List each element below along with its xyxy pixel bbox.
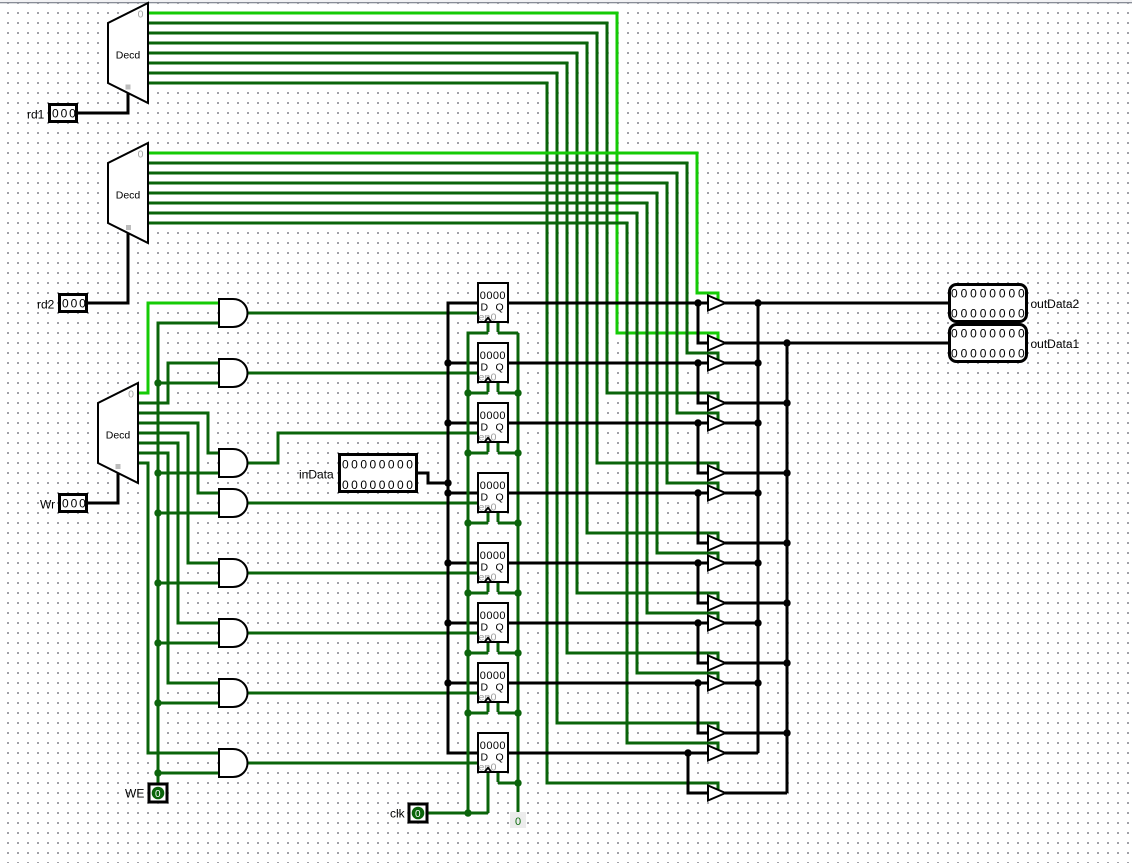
wire: register2 clock pin stub (487, 383, 490, 393)
tri-state buffer B3b (outData1 port) (708, 466, 726, 481)
wire: decoder2 out2 to buffer enable (148, 173, 718, 421)
wire: Q2 drop to second buffer (698, 363, 708, 403)
svg-text:inData: inData (299, 468, 334, 482)
tri-state buffer B4a (outData2 port) (708, 486, 726, 501)
AND gate G3 (219, 449, 248, 477)
svg-text:000: 000 (62, 497, 88, 511)
svg-text:0: 0 (128, 389, 134, 401)
wire: clk pin horizontal (428, 812, 488, 815)
junction data bus (448,623) (444, 619, 451, 626)
wire: buffer output to bus A y=753 (725, 752, 758, 755)
junction bus A (758,563) (754, 559, 761, 566)
wire: decoder2 out4 to buffer enable (148, 193, 718, 561)
wire: decoder1 out7 to buffer enable (148, 83, 718, 791)
junction bus B (787,343) (783, 339, 790, 346)
decoder U3 select pin (116, 464, 121, 469)
wire: register2 reset pin stub (497, 383, 500, 393)
wire: decoder2 out5 to buffer enable (148, 203, 718, 621)
svg-text:Q: Q (496, 752, 504, 764)
svg-text:0000: 0000 (480, 350, 506, 362)
tri-state buffer B1a (outData2 port) (708, 296, 726, 311)
wire: data bus tap to register D y=493 (448, 492, 477, 495)
junction reset riser (518,653) (514, 649, 521, 656)
svg-text:outData1: outData1 (1031, 337, 1080, 351)
wire: clock rail y=453 (468, 452, 488, 455)
wire: buffer output to bus B y=473 (725, 472, 787, 475)
wire: register6 reset pin stub (497, 643, 500, 653)
svg-text:Decd: Decd (106, 430, 131, 442)
svg-text:Decd: Decd (116, 50, 141, 62)
output pin outData2 (16-bit) (950, 285, 1028, 322)
junction bus A (758,303) (754, 299, 761, 306)
wire: buffer output to bus B y=543 (725, 542, 787, 545)
junction data bus (448,363) (444, 359, 451, 366)
wire: Q8 drop to second buffer (688, 753, 708, 793)
wire: register7 Q output to buffer (509, 682, 708, 685)
junction bus B (787,733) (783, 729, 790, 736)
input pin clk (value 0) (390, 804, 427, 822)
svg-text:0000: 0000 (480, 410, 506, 422)
wire: buffer output to bus B y=733 (725, 732, 787, 735)
svg-text:00000000: 00000000 (951, 307, 1028, 321)
wire: decoder3 out4 to AND gate 5 input (138, 433, 218, 563)
tri-state buffer B2a (outData2 port) (708, 356, 726, 371)
wire: clock riser x=468 (468, 333, 488, 813)
tri-state buffer B7a (outData2 port) (708, 676, 726, 691)
wire: decoder1 out0 to buffer enable (148, 13, 718, 341)
junction Q drop (698,423) (694, 419, 701, 426)
wire: register5 clock pin stub (487, 583, 490, 593)
wire: gate6 output to register 6 enable (248, 632, 477, 635)
wire: register3 Q output to buffer (509, 422, 708, 425)
junction data bus (448,563) (444, 559, 451, 566)
svg-text:00000000: 00000000 (342, 458, 415, 472)
wire: outData2 bus vertical x=758 (757, 303, 760, 753)
wire: rd2 pin to decoder2 select (88, 233, 128, 303)
junction clock riser (468,393) (464, 389, 471, 396)
wire: WE vertical trunk to gate1 lower input (158, 323, 218, 783)
wire: WE tap to gate lower input y=513 (158, 512, 218, 515)
wire: clock rail y=713 (468, 712, 488, 715)
svg-text:0: 0 (138, 149, 144, 161)
register R7 (D flip-flop, value 0000) (478, 663, 508, 704)
input pin inData (16-bit, value 0) (340, 455, 417, 493)
wire: buffer output to bus A y=623 (725, 622, 758, 625)
junction Q drop (698,563) (694, 559, 701, 566)
wire: buffer output to bus B y=603 (725, 602, 787, 605)
wire: WE tap to gate lower input y=583 (158, 582, 218, 585)
wire: decoder1 out4 to buffer enable (148, 53, 718, 601)
wire: reset rail y=653 (498, 652, 518, 655)
wire: data bus tap to register D y=563 (448, 562, 477, 565)
wire: register7 reset pin stub (497, 703, 500, 713)
wire: WE tap to gate lower input y=473 (158, 472, 218, 475)
wire: Q7 drop to second buffer (698, 683, 708, 733)
tri-state buffer B1b (outData1 port) (708, 336, 726, 351)
wire: reset rail y=523 (498, 522, 518, 525)
wire: gate2 output to register 2 enable (248, 372, 477, 375)
wire: decoder1 out1 to buffer enable (148, 23, 718, 401)
wire: reset rail y=453 (498, 452, 518, 455)
svg-text:000: 000 (52, 107, 78, 121)
wire: Q6 drop to second buffer (698, 623, 708, 663)
svg-text:rd2: rd2 (37, 298, 55, 312)
decoder U2 (rd2 read-port decoder) (108, 143, 148, 243)
tri-state buffer B5a (outData2 port) (708, 556, 726, 571)
wire: clock rail y=523 (468, 522, 488, 525)
wire: clock rail y=393 (468, 392, 488, 395)
wire: decoder2 out3 to buffer enable (148, 183, 718, 491)
junction clock riser (468,453) (464, 449, 471, 456)
wire: register8 reset pin stub (497, 773, 500, 783)
wire: register4 Q output to buffer (509, 492, 708, 495)
junction Q drop (698,363) (694, 359, 701, 366)
svg-text:WE: WE (125, 787, 144, 801)
wire: register1 Q output to buffer (509, 302, 708, 305)
junction reset riser (518,523) (514, 519, 521, 526)
constant 0 (reset tie-low) (510, 812, 526, 828)
wire: WE tap to gate lower input y=383 (158, 382, 218, 385)
junction Q drop (698,623) (694, 619, 701, 626)
svg-text:00000000: 00000000 (951, 347, 1028, 361)
tri-state buffer B6a (outData2 port) (708, 616, 726, 631)
wire: outData1 bus vertical x=787 (786, 343, 789, 793)
junction clock riser (468,653) (464, 649, 471, 656)
tri-state buffer B5b (outData1 port) (708, 596, 726, 611)
wire: register5 reset pin stub (497, 583, 500, 593)
svg-text:0: 0 (415, 809, 421, 820)
AND gate G1 (219, 299, 248, 327)
wire: WE tap to gate lower input y=703 (158, 702, 218, 705)
register R8 (D flip-flop, value 0000) (478, 733, 508, 774)
wire: buffer output to bus A y=423 (725, 422, 758, 425)
output pin outData1 (16-bit) (950, 325, 1028, 362)
wire: decoder3 out1 to AND gate 2 input (138, 363, 218, 403)
wire: buffer output to bus B y=663 (725, 662, 787, 665)
canvas top border strip (0, 0, 1132, 2)
tri-state buffer B8b (outData1 port) (708, 786, 726, 801)
wire: register4 clock pin stub (487, 513, 490, 523)
svg-text:00000000: 00000000 (342, 478, 415, 492)
tri-state buffer B3a (outData2 port) (708, 416, 726, 431)
wire: buffer output to bus B y=793 (725, 792, 787, 795)
junction bus B (787,663) (783, 659, 790, 666)
wire: register6 clock pin stub (487, 643, 490, 653)
wire: data bus tap to register D y=623 (448, 622, 477, 625)
wire: decoder2 out1 to buffer enable (148, 163, 718, 361)
junction Q8 drop (688,753) (684, 749, 691, 756)
svg-text:00000000: 00000000 (951, 327, 1028, 341)
svg-text:0000: 0000 (480, 740, 506, 752)
wire: clock rail y=653 (468, 652, 488, 655)
junction Q drop (698,493) (694, 489, 701, 496)
junction clock riser (468,523) (464, 519, 471, 526)
junction bus B (787,403) (783, 399, 790, 406)
wire: register6 Q output to buffer (509, 622, 708, 625)
wire: decoder1 out3 to buffer enable (148, 43, 718, 541)
junction bus A (758,623) (754, 619, 761, 626)
junction data bus (448,683) (444, 679, 451, 686)
decoder U3 (Wr write decoder) (98, 383, 138, 483)
wire: data bus tap to register D y=683 (448, 682, 477, 685)
wire: decoder1 out5 to buffer enable (148, 63, 718, 661)
svg-text:0: 0 (515, 816, 521, 828)
wire: decoder3 out6 to AND gate 7 input (138, 453, 218, 683)
tri-state buffer B8a (outData2 port) (708, 746, 726, 761)
svg-text:outData2: outData2 (1031, 297, 1080, 311)
junction Q drop (698,683) (694, 679, 701, 686)
junction reset riser (518,453) (514, 449, 521, 456)
svg-text:Wr: Wr (40, 498, 55, 512)
wire: register3 reset pin stub (497, 443, 500, 453)
register R6 (D flip-flop, value 0000) (478, 603, 508, 644)
junction WE trunk (158,643) (154, 639, 161, 646)
register R4 (D flip-flop, value 0000) (478, 473, 508, 514)
wire: decoder1 out2 to buffer enable (148, 33, 718, 471)
wire: register1 clock pin stub (487, 323, 490, 333)
wire: clock rail y=593 (468, 592, 488, 595)
svg-text:0000: 0000 (480, 290, 506, 302)
wire: reset rail y=333 (498, 332, 518, 335)
wire: register3 clock pin stub (487, 443, 490, 453)
wire: reset rail y=783 (498, 782, 518, 785)
wire: Wr pin to decoder3 select (88, 473, 118, 503)
junction reset riser (518,393) (514, 389, 521, 396)
tri-state buffer B6b (outData1 port) (708, 656, 726, 671)
AND gate G8 (219, 749, 248, 777)
wire: register1 reset pin stub (497, 323, 500, 333)
svg-text:0000: 0000 (480, 550, 506, 562)
wire: buffer output to bus A y=493 (725, 492, 758, 495)
junction Q drop (698,303) (694, 299, 701, 306)
wire: gate8 output to register 8 enable (248, 762, 477, 765)
decoder U1 (rd1 read-port decoder) (108, 3, 148, 103)
wire: buffer output to bus B y=403 (725, 402, 787, 405)
junction reset riser (518,593) (514, 589, 521, 596)
tri-state buffer B7b (outData1 port) (708, 726, 726, 741)
junction clock riser (468,713) (464, 709, 471, 716)
wire: decoder3 out7 to AND gate 8 input (138, 463, 218, 753)
svg-text:0000: 0000 (480, 670, 506, 682)
wire: Q4 drop to second buffer (698, 493, 708, 543)
wire: decoder3 out0 to AND gate 1 input (138, 303, 218, 393)
wire: decoder3 out2 to AND gate 3 input (138, 413, 218, 453)
wire: reset rail y=713 (498, 712, 518, 715)
wire: WE tap to gate lower input y=643 (158, 642, 218, 645)
wire: data bus vertical x=448 (448, 303, 477, 753)
decoder U2 select pin (126, 225, 131, 230)
svg-text:Q: Q (496, 492, 504, 504)
wire: buffer output to bus A y=683 (725, 682, 758, 685)
wire: inData pin to data bus (418, 473, 448, 483)
wire: reset rail y=393 (498, 392, 518, 395)
register R3 (D flip-flop, value 0000) (478, 403, 508, 444)
junction WE trunk (158,583) (154, 579, 161, 586)
junction WE trunk (158,473) (154, 469, 161, 476)
svg-text:0: 0 (155, 789, 161, 800)
junction bus B (787,473) (783, 469, 790, 476)
wire: register7 clock pin stub (487, 703, 490, 713)
junction WE trunk (158,383) (154, 379, 161, 386)
wire: data bus tap to register D y=363 (448, 362, 477, 365)
wire: WE tap to gate lower input y=773 (158, 772, 218, 775)
junction reset riser (518,713) (514, 709, 521, 716)
wire: register8 Q output to buffer (509, 752, 708, 755)
junction WE trunk (158,773) (154, 769, 161, 776)
svg-text:Q: Q (496, 682, 504, 694)
wire: reset riser x=518 to constant 0 (517, 333, 520, 815)
svg-text:rd1: rd1 (27, 108, 45, 122)
input pin Wr (value 000) (40, 495, 88, 512)
junction bus A (758,363) (754, 359, 761, 366)
wire: Q5 drop to second buffer (698, 563, 708, 603)
wire: decoder2 out7 to buffer enable (148, 223, 718, 751)
junction bus A (758,683) (754, 679, 761, 686)
wire: register5 Q output to buffer (509, 562, 708, 565)
junction reset riser (518,783) (514, 779, 521, 786)
svg-text:00000000: 00000000 (951, 287, 1028, 301)
wire: buffer out to outData1 (725, 342, 948, 345)
AND gate G4 (219, 489, 248, 517)
register R5 (D flip-flop, value 0000) (478, 543, 508, 584)
svg-text:0000: 0000 (480, 610, 506, 622)
svg-text:Q: Q (496, 362, 504, 374)
junction bus A (758,423) (754, 419, 761, 426)
input pin rd2 (value 000) (37, 295, 88, 312)
wire: buffer output to bus A y=363 (725, 362, 758, 365)
wire: register2 Q output to buffer (509, 362, 708, 365)
register R1 (D flip-flop, value 0000) (478, 283, 508, 324)
junction bus A (758,493) (754, 489, 761, 496)
svg-text:Q: Q (496, 622, 504, 634)
wire: decoder3 out3 to AND gate 4 input (138, 423, 218, 493)
junction WE trunk (158,513) (154, 509, 161, 516)
svg-text:Q: Q (496, 422, 504, 434)
junction clock riser (468,813) (464, 809, 471, 816)
wire: decoder3 out5 to AND gate 6 input (138, 443, 218, 623)
input pin WE (value 0) (125, 784, 167, 802)
wire: decoder2 out6 to buffer enable (148, 213, 718, 681)
wire: Q1 drop to second buffer (698, 303, 708, 343)
wire: data bus tap to register D y=423 (448, 422, 477, 425)
wire: buffer out to outData2 (725, 302, 948, 305)
AND gate G5 (219, 559, 248, 587)
decoder U1 select pin (126, 85, 131, 90)
junction clock riser (468,593) (464, 589, 471, 596)
wire: gate3 output to register 3 enable (248, 433, 477, 463)
tri-state buffer B4b (outData1 port) (708, 536, 726, 551)
wire: gate1 output to register 1 enable (248, 312, 477, 315)
wire: decoder1 out6 to buffer enable (148, 73, 718, 731)
svg-text:0: 0 (138, 9, 144, 21)
junction bus B (787,603) (783, 599, 790, 606)
wire: gate5 output to register 5 enable (248, 572, 477, 575)
register R2 (D flip-flop, value 0000) (478, 343, 508, 384)
wire: gate4 output to register 4 enable (248, 502, 477, 505)
wire: reset rail y=593 (498, 592, 518, 595)
AND gate G7 (219, 679, 248, 707)
AND gate G2 (219, 359, 248, 387)
svg-text:clk: clk (390, 807, 406, 821)
wire: buffer output to bus A y=563 (725, 562, 758, 565)
wire: rd1 pin to decoder1 select (78, 93, 128, 113)
wire: decoder2 out0 to buffer enable (148, 153, 718, 301)
svg-text:Q: Q (496, 562, 504, 574)
svg-text:000: 000 (62, 297, 88, 311)
input pin rd1 (value 000) (27, 105, 78, 122)
junction data bus (448,483) (444, 479, 451, 486)
tri-state buffer B2b (outData1 port) (708, 396, 726, 411)
junction WE trunk (158,703) (154, 699, 161, 706)
AND gate G6 (219, 619, 248, 647)
wire: register4 reset pin stub (497, 513, 500, 523)
junction bus B (787,543) (783, 539, 790, 546)
svg-text:Q: Q (496, 302, 504, 314)
wire: Q3 drop to second buffer (698, 423, 708, 473)
junction data bus (448,423) (444, 419, 451, 426)
svg-text:Decd: Decd (116, 190, 141, 202)
junction data bus (448,493) (444, 489, 451, 496)
wire: gate7 output to register 7 enable (248, 692, 477, 695)
wire: clock stub to register8 (487, 773, 490, 813)
svg-text:0000: 0000 (480, 480, 506, 492)
